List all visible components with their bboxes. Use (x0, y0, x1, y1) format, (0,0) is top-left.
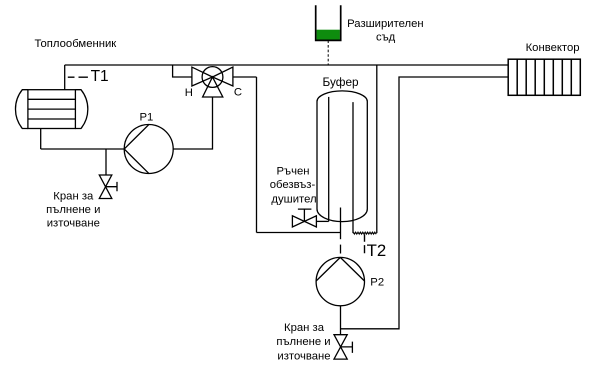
svg-text:Р1: Р1 (140, 111, 154, 123)
wire: buffer internal pipe right (352, 102, 354, 233)
wire: pump P2 bottom pipe (340, 306, 342, 335)
wire: drain valve 1 stub (105, 149, 107, 175)
pump P2 (316, 257, 364, 305)
wire: cold return drop from valve C (256, 77, 258, 233)
buffer tank (Буфер) (317, 91, 367, 222)
label Кран за пълнене и източване (left) (46, 190, 100, 229)
wire: heat exchanger top riser (64, 65, 66, 90)
convector (Конвектор) (508, 59, 580, 95)
heat exchanger (Топлообменник) (15, 90, 87, 129)
svg-text:Топлообменник: Топлообменник (35, 38, 117, 50)
label Разширителен съд (347, 18, 424, 44)
wire: supply drop right of buffer (376, 65, 378, 233)
svg-text:Н: Н (185, 87, 193, 99)
svg-text:Ръчен: Ръчен (276, 166, 309, 178)
wire: horizontal run to buffer outlet (257, 232, 341, 234)
wire: dash segment above pump P2 (340, 245, 342, 254)
svg-text:Т1: Т1 (91, 68, 109, 85)
svg-text:душител: душител (271, 194, 316, 206)
three-way valve (192, 67, 233, 97)
wire: main top supply line (65, 64, 509, 66)
svg-text:източване: източване (277, 350, 330, 362)
svg-text:Конвектор: Конвектор (526, 42, 580, 54)
pump P1 (124, 125, 173, 174)
T2 sensor dashes (364, 234, 366, 253)
svg-text:Кран за: Кран за (53, 190, 94, 202)
wire: buffer bottom outlet pipe (340, 208, 342, 240)
svg-text:Разширителен: Разширителен (347, 18, 424, 30)
wire: buffer internal pipe left (328, 97, 330, 221)
wire: 3-way valve right stub (233, 76, 257, 78)
svg-text:С: С (234, 87, 242, 99)
svg-text:Буфер: Буфер (323, 75, 360, 89)
T1 sensor dashes (68, 76, 88, 78)
svg-text:обезвъз-: обезвъз- (270, 179, 316, 191)
svg-text:Т2: Т2 (367, 241, 387, 260)
svg-text:източване: източване (47, 217, 100, 229)
wire: expansion tank dashed connection (327, 40, 329, 65)
svg-text:пълнене и: пълнене и (46, 204, 100, 216)
svg-text:съд: съд (376, 32, 396, 44)
wire: 3-way valve left stub (173, 65, 192, 77)
wire: pump P1 outlet to 3-way valve (173, 97, 212, 149)
svg-text:Р2: Р2 (370, 277, 384, 289)
wire: convector return line (341, 77, 509, 329)
wire: pipe to pump P1 (41, 148, 125, 150)
drain valve 1 (bowtie with handle) (99, 175, 117, 199)
T2 sensor pocket hatched bottom (353, 232, 377, 234)
manual air vent (Ръчен обезвъздушител) (292, 209, 316, 227)
expansion tank (Разширителен съд) (316, 5, 341, 40)
label Кран за пълнене и източване (bottom) (276, 322, 330, 362)
wire: heat exchanger bottom drop (40, 129, 42, 150)
label Ръчен обезвъздушител (270, 166, 317, 206)
svg-text:Кран за: Кран за (284, 322, 325, 334)
drain valve 2 (bowtie with handle) (334, 335, 352, 359)
svg-text:пълнене и: пълнене и (276, 336, 330, 348)
wire: air vent stub (316, 220, 328, 222)
